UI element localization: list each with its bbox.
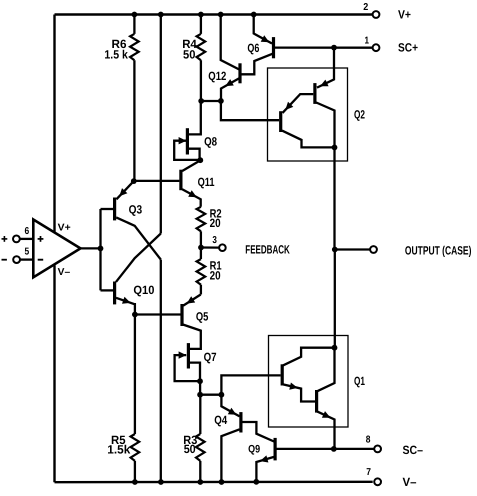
transistor Q4 base bar (239, 412, 242, 432)
junction R4/Q8-drain node (198, 98, 204, 104)
wire Q3/Q10 base bus (99, 209, 101, 290)
wire Q12 base to Q6 collector (242, 54, 273, 75)
transistor Q10 base bar (113, 282, 116, 305)
wire op-amp output (81, 247, 99, 249)
junction R3 node (197, 392, 203, 398)
wire Q10 collector vertical from V+ (160, 15, 162, 234)
arrow Q3 emitter (PNP) (119, 188, 127, 196)
pin OUTPUT (CASE) terminal (370, 246, 377, 253)
wire Q12 emitter (221, 78, 239, 101)
wire Q10 emitter (116, 298, 135, 315)
wire Q10emitter/R5/Q5base junction to R5 (134, 315, 136, 435)
svg-text:SC–: SC– (403, 443, 424, 457)
op-amp + input mark (38, 238, 44, 240)
wire Q7 gate (175, 355, 198, 381)
wire Q4 emitter from node (221, 395, 239, 417)
wire Q1 base drive (221, 375, 280, 394)
wire R1 top lead (200, 248, 202, 260)
arrow Q5 emitter (PNP) (187, 296, 196, 303)
node R6/Q3e/Q11b junction (131, 178, 137, 184)
svg-text:1.5 k: 1.5 k (104, 48, 128, 62)
wire Q1a emitter to Q1b base (283, 384, 316, 401)
transistor Q12 base bar (238, 63, 241, 83)
wire Q3 base (101, 208, 114, 210)
svg-text:50: 50 (183, 48, 196, 62)
svg-text:Q3: Q3 (129, 203, 143, 217)
junction Q10e/R5/Q5b (132, 312, 138, 318)
wire Q2 to OUTPUT (333, 147, 335, 249)
wire Q1b emitter to SC- (317, 412, 334, 449)
svg-text:V+: V+ (58, 222, 71, 233)
svg-text:V–: V– (403, 475, 417, 489)
transistor Q9 base bar (274, 438, 277, 461)
wire Q2b collector (282, 131, 333, 148)
Q2 boundary box (268, 68, 348, 161)
svg-text:OUTPUT (CASE): OUTPUT (CASE) (405, 244, 472, 258)
transistor Q1a base bar (281, 364, 284, 385)
wire Q7 node down (199, 381, 201, 395)
junction SC+/Q2 node (331, 45, 337, 51)
arrow Q9 emitter (NPN) (260, 455, 269, 462)
wire Q2a collector (316, 103, 334, 148)
label - polarity pin 5 (2, 259, 7, 261)
wire left V+ supply vertical (53, 15, 55, 232)
pin 6 terminal (13, 236, 20, 243)
pin 1 terminal SC+ (373, 44, 380, 51)
pin 3 terminal FEEDBACK (219, 244, 226, 251)
svg-text:2: 2 (363, 2, 368, 13)
wire R4 bottom lead (200, 60, 202, 101)
wire bottom bias node horizontal (200, 394, 221, 396)
resistor R1 (197, 259, 206, 285)
wire Q1b collector (317, 348, 334, 392)
arrow Q12 emitter (NPN) (225, 79, 234, 86)
svg-text:SC+: SC+ (398, 40, 418, 54)
wire Q2 base drive (221, 101, 279, 120)
op-amp - input mark (38, 259, 44, 261)
svg-text:V+: V+ (398, 7, 411, 21)
junction Q12-emitter node (218, 98, 224, 104)
svg-text:1.5k: 1.5k (107, 442, 130, 456)
arrow Q6 emitter (PNP) (261, 35, 270, 42)
wire Q11 emitter (182, 189, 201, 207)
pin 8 terminal SC- (374, 446, 381, 453)
resistor R6 (130, 34, 139, 60)
wire SC- rail (276, 448, 374, 450)
wire Q9 emitter to V- (256, 457, 274, 482)
wire Q3 collector vertical to V- (160, 260, 162, 482)
arrow Q8 gate (179, 137, 187, 144)
wire Q3 collector cross diagonal (116, 217, 161, 259)
arrow Q1b emitter (NPN) (322, 411, 331, 418)
junction Q1 collectors (332, 345, 338, 351)
wire Q11 collector (182, 160, 200, 171)
junction V+/Q6-emitter (251, 12, 257, 18)
pin 7 terminal V- (374, 478, 381, 485)
junction op-amp output node (98, 246, 104, 252)
wire OUTPUT (335, 248, 370, 250)
transistor Q7 channel bar (187, 343, 190, 368)
wire Q10 collector cross diagonal (116, 234, 161, 282)
arrow Q1a emitter (NPN) (289, 383, 297, 390)
wire Q1a collector (283, 348, 335, 366)
arrow Q2a emitter (PNP) (320, 80, 329, 87)
junction V-/Q9-emitter (253, 479, 259, 485)
junction Q8 source/gate/Q11 collector (197, 157, 203, 163)
pin 2 terminal V+ (373, 11, 380, 18)
wire Q8 gate (174, 141, 198, 160)
svg-text:Q1: Q1 (354, 374, 365, 388)
junction OUTPUT node (332, 247, 338, 253)
junction node 3 (198, 245, 204, 251)
svg-text:Q8: Q8 (204, 134, 217, 148)
wire SC+ rail (275, 46, 373, 48)
label + polarity pin 6 (2, 238, 8, 240)
svg-text:Q12: Q12 (208, 69, 226, 83)
transistor Q2a base bar (313, 83, 316, 104)
wire Q3 emitter (116, 181, 133, 199)
wire V- rail (bottom) (55, 481, 373, 484)
junction V-/R3 (197, 479, 203, 485)
wire Q4 base to Q9 collector (242, 422, 274, 442)
wire pin 6 to op-amp (20, 238, 32, 240)
junction SC-/Q1 node (331, 446, 337, 452)
arrow Q7 gate (179, 351, 187, 358)
wire Q8 drain lead (189, 101, 201, 134)
svg-text:6: 6 (25, 226, 30, 237)
resistor R5 (131, 434, 140, 461)
op-amp A1 triangle (33, 220, 80, 278)
wire Q5 base (135, 313, 181, 315)
wire Q8 source lead (189, 149, 200, 161)
svg-text:8: 8 (366, 435, 371, 446)
wire R3 top lead (199, 395, 201, 434)
junction V-/R5 (132, 479, 138, 485)
wire V+ rail (top) (55, 13, 373, 15)
wire Q12 collector to V+ (221, 15, 239, 70)
transistor Q5 base bar (180, 304, 183, 326)
wire R2 bottom lead (200, 231, 202, 247)
svg-text:7: 7 (366, 467, 371, 478)
Q1 boundary box (269, 336, 349, 428)
svg-text:3: 3 (212, 235, 217, 246)
junction V+/Q12-collector (218, 12, 224, 18)
transistor Q6 base bar (272, 37, 275, 58)
svg-text:Q4: Q4 (214, 413, 227, 427)
resistor R4 (197, 34, 206, 60)
wire R5 bottom lead (134, 461, 136, 482)
pin 5 terminal (13, 256, 20, 263)
transistor Q11 base bar (179, 170, 182, 191)
junction V+/Q10-collector line (158, 12, 164, 18)
arrow Q11 emitter (NPN) (188, 190, 197, 197)
svg-text:Q11: Q11 (198, 175, 215, 189)
junction V+/R6 (132, 12, 138, 18)
svg-text:Q10: Q10 (133, 283, 154, 297)
wire R1 bottom lead (200, 285, 202, 295)
wire R3 bottom lead (199, 461, 201, 482)
resistor R2 (197, 207, 206, 232)
svg-text:Q7: Q7 (204, 350, 217, 364)
junction V+/R4 (198, 12, 204, 18)
junction Q7 source/gate (197, 378, 203, 384)
junction V-/Q4-collector (219, 479, 225, 485)
svg-text:50: 50 (184, 442, 196, 456)
transistor Q8 channel bar (186, 128, 189, 154)
wire SC+ to Q2a emitter (317, 48, 334, 88)
svg-text:20: 20 (210, 216, 221, 230)
svg-text:FEEDBACK: FEEDBACK (245, 243, 290, 257)
wire Q11 base (134, 180, 180, 182)
resistor R3 (196, 434, 205, 461)
junction Q2 collectors (332, 145, 338, 151)
transistor Q3 base bar (113, 198, 116, 221)
svg-text:Q6: Q6 (247, 41, 259, 55)
wire bias node horizontal (201, 100, 221, 102)
node 3 FEEDBACK wire (201, 246, 219, 248)
svg-text:V–: V– (58, 267, 71, 278)
wire Q2a base to Q2b emitter (283, 94, 314, 113)
arrow Q10 emitter (NPN) (122, 297, 131, 304)
wire left V- supply vertical (53, 265, 55, 482)
wire Q10 base (101, 289, 114, 291)
svg-text:20: 20 (210, 268, 221, 282)
wire R4 top lead (200, 15, 202, 34)
wire R6 bottom lead to node (133, 60, 135, 181)
wire OUTPUT to Q1 (334, 250, 336, 348)
junction V-/Q3-collector line (158, 479, 164, 485)
junction Q4-emitter node (219, 392, 225, 398)
transistor Q1b base bar (315, 390, 318, 413)
svg-text:Q5: Q5 (196, 309, 209, 323)
svg-text:Q9: Q9 (248, 444, 260, 456)
svg-text:5: 5 (25, 247, 30, 258)
wire Q5 emitter from R1 (183, 295, 201, 306)
arrow Q2b emitter (PNP) (285, 102, 293, 110)
wire R6 top lead (133, 15, 135, 34)
wire Q4 collector to V- (221, 429, 239, 482)
wire Q5 collector to Q7 (183, 325, 201, 349)
svg-text:1: 1 (365, 35, 370, 46)
wire Q6 emitter from V+ (254, 15, 272, 44)
arrow Q4 emitter (PNP) (228, 408, 237, 415)
wire Q7 source lead (190, 363, 200, 382)
wire pin 5 to op-amp (20, 258, 32, 260)
svg-text:Q2: Q2 (354, 108, 365, 122)
transistor Q2b base bar (279, 111, 282, 132)
